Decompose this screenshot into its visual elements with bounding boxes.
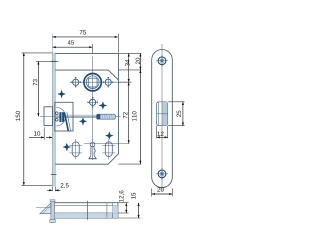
dim 25 <box>168 102 184 126</box>
vertical centerline of body <box>92 57 94 161</box>
left hole <box>70 77 81 88</box>
dim 10 <box>29 127 52 140</box>
slotted hole left <box>69 139 82 159</box>
dim 20 bottom <box>152 187 173 196</box>
side screw hole top <box>156 55 168 67</box>
faceplate screw slot bottom <box>51 174 57 176</box>
pocket rivet bottom <box>56 118 59 121</box>
rivet star R2 <box>80 118 87 125</box>
dim 15 <box>118 193 141 218</box>
latch base block <box>59 112 64 122</box>
right hole <box>103 77 114 88</box>
dim 34 <box>118 53 141 82</box>
rivet star R3 <box>63 144 70 151</box>
inner top plate line with chamfer <box>55 70 119 80</box>
side screw hole bottom <box>156 168 168 180</box>
latch tail round back <box>56 107 65 126</box>
latch centerline <box>40 116 121 118</box>
hole below follower <box>87 97 98 108</box>
dim 75 <box>53 30 119 53</box>
dim 45 <box>53 40 93 53</box>
dim 110 <box>118 70 141 164</box>
rivet star R1 <box>99 102 106 109</box>
spring capsule <box>97 114 116 119</box>
faceplate screw slot top <box>51 60 57 62</box>
dim 12.6 <box>118 191 128 213</box>
dim 2.5 <box>47 183 68 191</box>
cylinder row line <box>84 143 130 145</box>
latch tail rod <box>55 114 96 116</box>
faceplate front bar <box>52 34 55 187</box>
latch cutout <box>157 102 168 126</box>
slotted hole right <box>102 139 115 159</box>
latch pocket <box>55 102 73 131</box>
dim 150 <box>16 53 53 186</box>
rivet star R5 <box>58 91 65 98</box>
side faceplate view <box>152 44 173 191</box>
bottom view latch triangle <box>36 203 51 214</box>
lever in pocket <box>64 113 68 131</box>
keyhole cylinder profile <box>88 142 96 159</box>
bottom view faceplate bar <box>50 200 56 223</box>
bottom view case <box>54 201 118 220</box>
latch bolt front <box>44 107 52 126</box>
lock body case outline <box>55 53 119 164</box>
dim 20 top right <box>118 53 141 70</box>
pocket rivet top <box>56 112 59 115</box>
follower U1 <box>84 74 101 91</box>
rivet star R4 <box>106 132 113 139</box>
horizontal follower row centerline <box>70 81 131 83</box>
dim 12 <box>157 126 168 139</box>
dim 73 <box>33 61 59 116</box>
dim 72 <box>123 82 129 143</box>
